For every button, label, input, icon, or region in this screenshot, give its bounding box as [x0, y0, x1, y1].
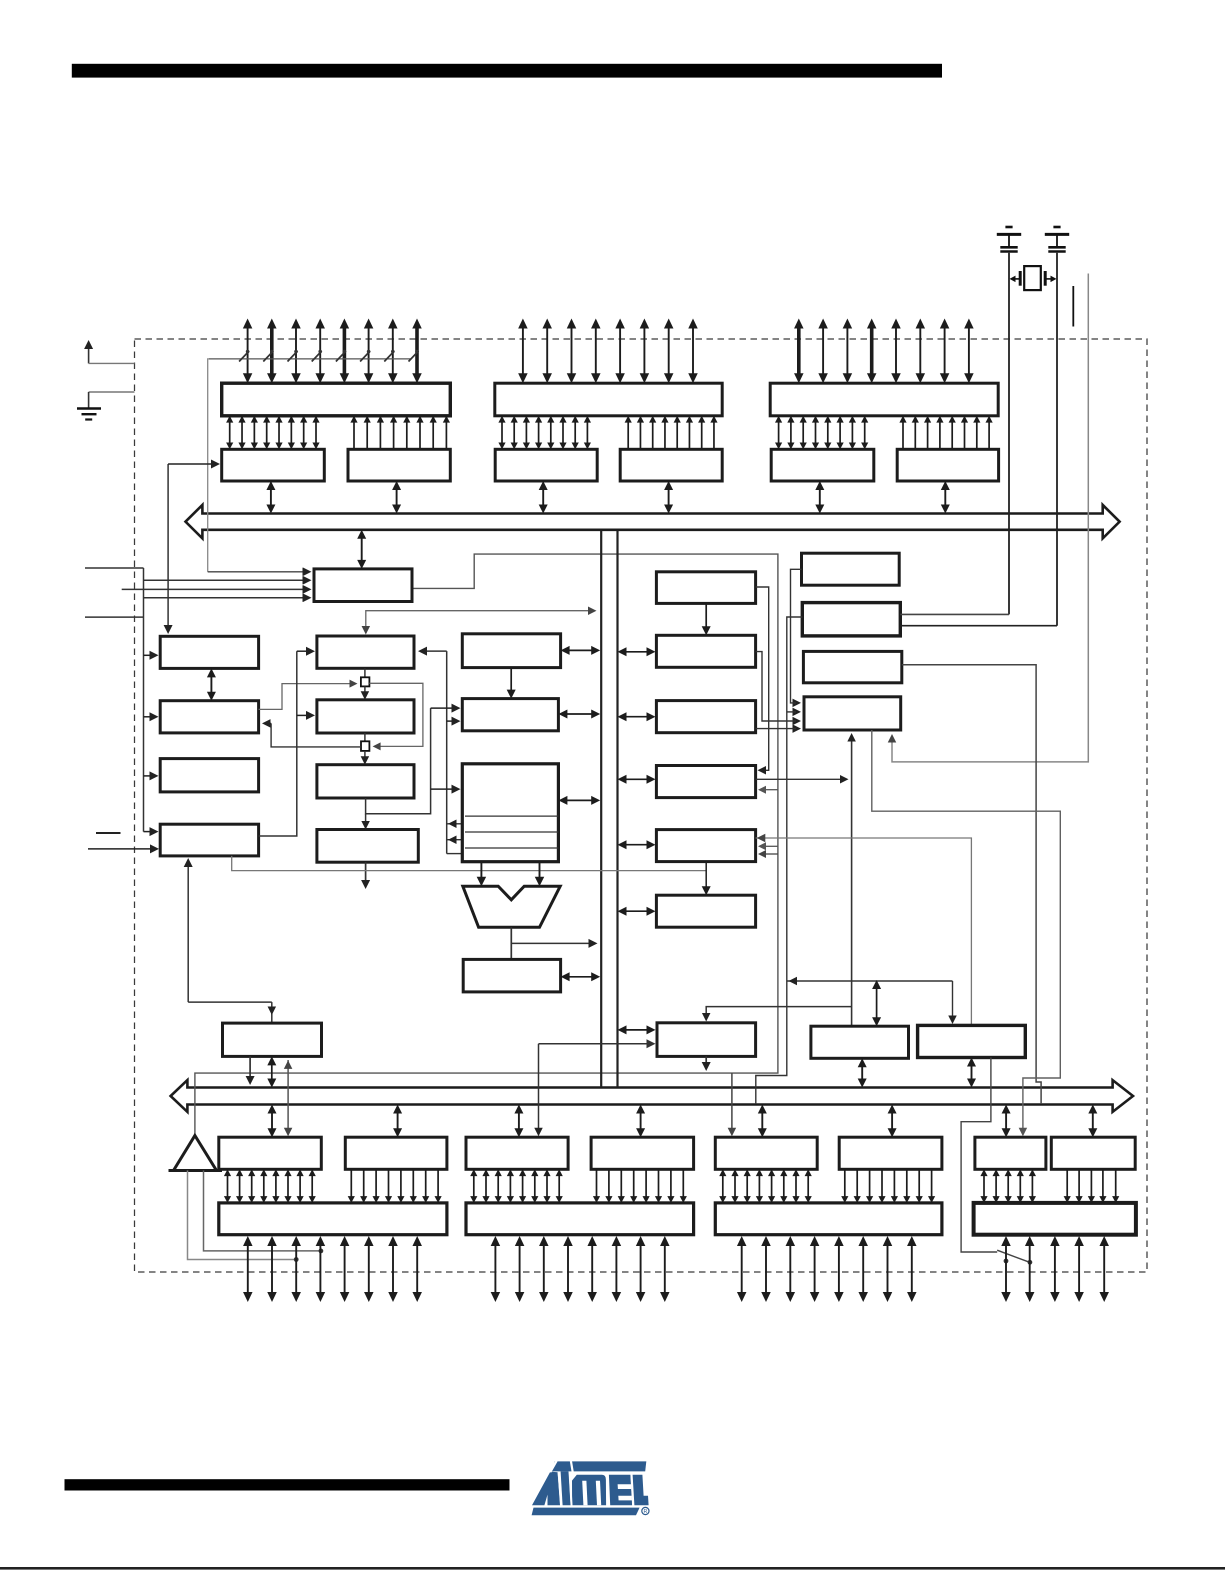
svg-text:R: R	[644, 1509, 648, 1515]
